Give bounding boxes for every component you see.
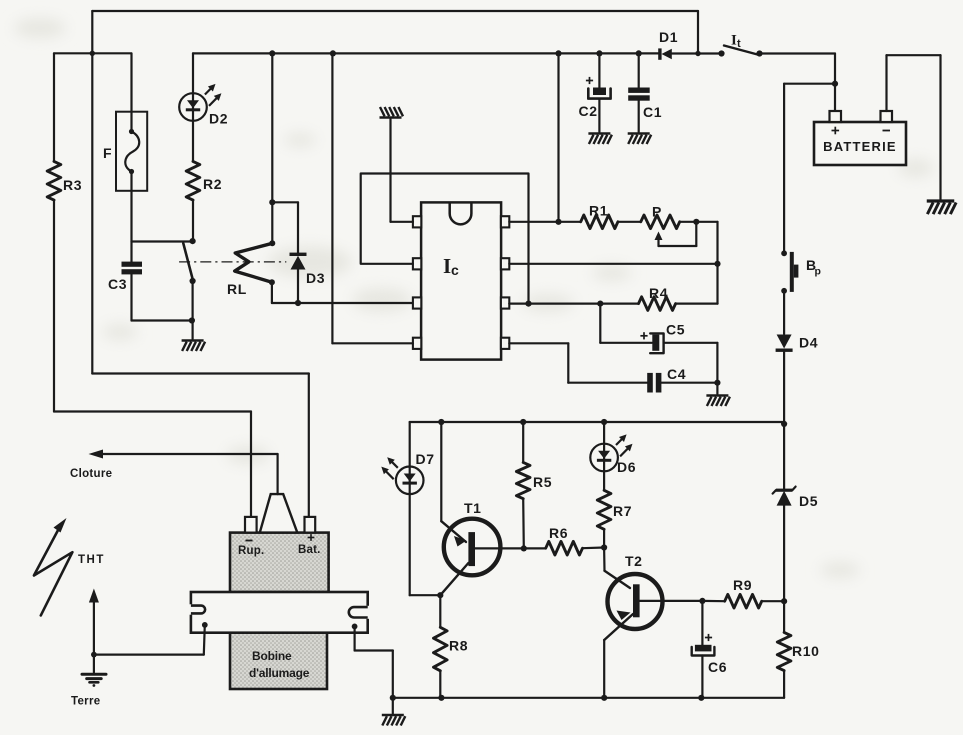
wire fuse bottom bbox=[130, 172, 132, 242]
wire IC pin4 to rail bbox=[332, 342, 413, 344]
svg-text:C5: C5 bbox=[666, 322, 685, 338]
wire R3 bottom to Rup bbox=[53, 200, 55, 411]
switch It bbox=[718, 50, 724, 56]
node rail junctions bbox=[269, 50, 275, 56]
node pin7 junction bbox=[714, 261, 720, 267]
wire R1 to P bbox=[618, 221, 641, 223]
svg-text:R6: R6 bbox=[549, 525, 568, 541]
svg-text:Bat.: Bat. bbox=[298, 544, 321, 556]
wire battery to Bat terminal bbox=[91, 53, 93, 373]
wire D6 top bbox=[603, 422, 605, 444]
resistor R3 bbox=[47, 161, 61, 200]
node mid bus junctions bbox=[438, 419, 444, 425]
svg-text:I: I bbox=[443, 254, 451, 278]
wire D7 bottom bbox=[409, 494, 411, 595]
wire terre down bbox=[93, 655, 95, 673]
wire C4 right bbox=[661, 382, 717, 384]
resistor R9 bbox=[725, 594, 762, 608]
wire RL top bbox=[271, 53, 273, 202]
wire IC pin5 row bbox=[509, 342, 568, 344]
wire R5 bottom bbox=[522, 499, 525, 549]
capacitor C1 bbox=[628, 88, 650, 93]
wire R8 top bbox=[439, 595, 441, 627]
wire branch to Bp bbox=[784, 83, 835, 85]
wire R2 bottom bbox=[192, 200, 194, 241]
svg-text:THT: THT bbox=[78, 554, 105, 566]
zener diode D5 bbox=[777, 491, 792, 506]
wire R8 bottom bbox=[439, 671, 441, 698]
relay coil RL bbox=[235, 243, 273, 282]
node pin6 loop junction bbox=[525, 301, 531, 307]
svg-text:R4: R4 bbox=[649, 285, 668, 301]
transistor T2 bbox=[608, 574, 663, 629]
wire HT to cloture bbox=[277, 454, 279, 494]
wire IC pin8 row bbox=[509, 221, 580, 223]
LED D6 bbox=[590, 434, 632, 471]
node band right terminal bbox=[352, 624, 358, 630]
wire IC pin1 to ground bbox=[391, 221, 413, 223]
ignition coil lower body bbox=[230, 633, 327, 689]
capacitor C6 bbox=[695, 645, 712, 652]
svg-text:T2: T2 bbox=[625, 553, 643, 569]
wire mid bus bbox=[410, 421, 784, 423]
wire IC pin6 row bbox=[509, 303, 638, 305]
dash-dot link line bbox=[179, 261, 286, 263]
wire R6 right bbox=[583, 546, 605, 549]
svg-text:d'allumage: d'allumage bbox=[249, 666, 310, 680]
node battery branch bbox=[832, 81, 838, 87]
node bus junction right bbox=[781, 421, 787, 427]
svg-text:C4: C4 bbox=[667, 366, 686, 382]
band right slot bbox=[366, 606, 369, 619]
node fuse/battery junction bbox=[90, 51, 95, 56]
svg-text:D1: D1 bbox=[659, 29, 678, 45]
coil terminal Bat post bbox=[305, 517, 316, 533]
diode D3 bbox=[290, 253, 307, 256]
svg-text:D3: D3 bbox=[306, 270, 325, 286]
node T2 collector junction bbox=[699, 598, 705, 604]
capacitor C2 bbox=[593, 88, 606, 96]
svg-text:Rup.: Rup. bbox=[238, 545, 264, 557]
wire bus ground stub bbox=[392, 698, 394, 714]
terre arrow bbox=[89, 589, 99, 603]
wire rail to It switch bbox=[672, 52, 722, 54]
wire D7 top bbox=[409, 422, 411, 467]
node C5 branch junction bbox=[597, 301, 603, 307]
wire C2 bbox=[598, 53, 600, 88]
wire C3 bottom bbox=[130, 274, 132, 320]
node C3 junction bbox=[189, 317, 195, 323]
wire R9 left bbox=[702, 600, 724, 602]
svg-text:P: P bbox=[652, 204, 662, 220]
wire fuse top bbox=[130, 53, 132, 131]
svg-text:Bobine: Bobine bbox=[252, 649, 292, 663]
wire T1 collector bbox=[440, 422, 442, 521]
wire T2 base feed bbox=[603, 548, 606, 571]
node bottom bus junctions bbox=[390, 695, 396, 701]
svg-text:R8: R8 bbox=[449, 638, 468, 654]
wire bottom ground bus bbox=[393, 697, 784, 699]
fuse F bbox=[116, 112, 147, 191]
wire R4 right bbox=[676, 303, 718, 305]
node band left terminal bbox=[202, 622, 208, 628]
node R1 feed bbox=[555, 219, 561, 225]
ignition coil upper body bbox=[230, 533, 329, 592]
transistor T1 bbox=[444, 519, 501, 576]
wire D6 to R7 bbox=[603, 471, 605, 490]
wire R3 top bbox=[53, 53, 55, 161]
svg-text:p: p bbox=[815, 266, 822, 278]
wire D2 top bbox=[192, 53, 194, 93]
wire R5 top bbox=[522, 422, 524, 462]
wire D2 to R2 bbox=[192, 121, 194, 162]
wire Bp to D4 bbox=[783, 291, 785, 334]
node terre junction bbox=[91, 652, 97, 658]
wire P to pin7 vertical bbox=[716, 222, 718, 304]
wire coil right to bus bbox=[354, 626, 356, 650]
wire R9 right bbox=[762, 600, 784, 602]
wire R10 bottom bbox=[783, 671, 785, 698]
svg-text:D7: D7 bbox=[416, 451, 435, 467]
capacitor C4 bbox=[647, 373, 653, 393]
svg-text:F: F bbox=[103, 145, 112, 161]
wire terre to coil bbox=[94, 653, 204, 655]
wire switch to ground bbox=[192, 281, 194, 339]
node D3 bottom bbox=[295, 300, 301, 306]
IC pins bbox=[413, 216, 421, 227]
LED D7 bbox=[381, 457, 423, 494]
wire IC pin7 row bbox=[509, 263, 717, 265]
resistor R2 bbox=[186, 161, 200, 200]
earth symbol Terre bbox=[82, 673, 106, 676]
svg-text:t: t bbox=[737, 38, 741, 50]
node R9/R10 junction bbox=[781, 598, 787, 604]
wire P right bbox=[680, 221, 718, 223]
wire IC pin2 loop bbox=[361, 174, 529, 304]
LED D2 bbox=[179, 84, 221, 121]
svg-text:D4: D4 bbox=[799, 335, 818, 351]
svg-text:R9: R9 bbox=[733, 577, 752, 593]
wire T2 emitter bbox=[603, 640, 605, 698]
wire C1 bbox=[638, 53, 640, 87]
node R6/R7 junction bbox=[601, 544, 607, 550]
wire left top segment R3-F bbox=[54, 52, 131, 54]
svg-text:C2: C2 bbox=[579, 103, 598, 119]
IC body U1 bbox=[421, 202, 501, 359]
wire fuse-switch link bbox=[132, 240, 193, 242]
resistor R10 bbox=[777, 632, 791, 670]
resistor R1 bbox=[581, 215, 618, 229]
wire C6 top bbox=[701, 601, 703, 645]
ground under C1 bbox=[628, 134, 652, 145]
pot wiper arrow bbox=[657, 239, 659, 247]
wire It to battery bbox=[760, 52, 836, 54]
wire stub to ground bbox=[716, 383, 718, 394]
band left slot bbox=[189, 604, 192, 614]
node switch top bbox=[190, 238, 196, 244]
diode D1 bbox=[658, 48, 661, 59]
svg-text:R1: R1 bbox=[589, 203, 608, 219]
svg-text:D6: D6 bbox=[617, 459, 636, 475]
wire IC pin3 row bbox=[272, 302, 413, 304]
resistor R8 bbox=[434, 627, 448, 671]
battery BATTERIE bbox=[814, 122, 906, 165]
resistor R4 bbox=[639, 297, 676, 311]
svg-text:C3: C3 bbox=[108, 276, 127, 292]
capacitor C5 bbox=[652, 335, 659, 351]
svg-text:R3: R3 bbox=[63, 177, 82, 193]
svg-text:c: c bbox=[451, 262, 459, 278]
svg-text:BATTERIE: BATTERIE bbox=[823, 139, 897, 154]
node RL/D3 junction bbox=[269, 199, 275, 205]
svg-text:R10: R10 bbox=[792, 643, 819, 659]
wire R7 bottom bbox=[603, 529, 605, 547]
ground bottom bus bbox=[382, 715, 406, 726]
coil mounting band bbox=[191, 592, 368, 633]
ground under C2 bbox=[588, 134, 612, 145]
node C4 ground junction bbox=[714, 380, 720, 386]
wire rail drop to R1 bbox=[557, 53, 559, 221]
wire C5 branch bbox=[599, 304, 601, 343]
ground under switch bbox=[182, 341, 206, 352]
wire D5 to R9 node bbox=[783, 506, 785, 602]
svg-text:D2: D2 bbox=[209, 111, 228, 127]
cloture arrow head bbox=[89, 450, 104, 459]
ground above IC bbox=[380, 107, 404, 118]
wire main rail bbox=[193, 52, 659, 54]
potentiometer P bbox=[641, 215, 680, 229]
svg-text:D5: D5 bbox=[799, 493, 818, 509]
svg-text:R5: R5 bbox=[533, 474, 552, 490]
node switch bottom bbox=[190, 278, 196, 284]
wire RL bottom bbox=[271, 282, 273, 303]
wire R10 top bbox=[783, 601, 785, 632]
wire battery minus to ground bbox=[885, 55, 887, 111]
svg-text:R7: R7 bbox=[613, 503, 632, 519]
node T1 emitter junction bbox=[437, 592, 443, 598]
wire D3 top bbox=[272, 201, 298, 203]
resistor R7 bbox=[597, 490, 611, 529]
diode D4 bbox=[777, 335, 792, 349]
ground battery bbox=[927, 201, 956, 214]
relay contact blade bbox=[183, 243, 193, 281]
node P wiper tie bbox=[693, 219, 699, 225]
svg-text:Cloture: Cloture bbox=[70, 468, 112, 480]
svg-text:RL: RL bbox=[227, 281, 247, 297]
THT lightning bolt bbox=[34, 526, 73, 616]
resistor R5 bbox=[516, 462, 530, 498]
node T1 base junction bbox=[521, 545, 527, 551]
svg-text:C6: C6 bbox=[708, 659, 727, 675]
wire D4 to D5 bbox=[783, 424, 785, 489]
svg-text:T1: T1 bbox=[464, 500, 482, 516]
coil HT tower bbox=[260, 494, 298, 532]
coil terminal Rup post bbox=[245, 517, 257, 533]
wire top outer rail bbox=[92, 10, 698, 12]
svg-text:C1: C1 bbox=[643, 104, 662, 120]
wire C3 top bbox=[130, 242, 132, 262]
wire R6 left bbox=[524, 547, 546, 549]
capacitor C3 bbox=[122, 262, 143, 267]
resistor R6 bbox=[546, 541, 583, 555]
svg-text:R2: R2 bbox=[203, 176, 222, 192]
push button Bp bbox=[781, 250, 787, 256]
ground under C4 bbox=[706, 396, 730, 407]
svg-text:Terre: Terre bbox=[71, 696, 100, 708]
